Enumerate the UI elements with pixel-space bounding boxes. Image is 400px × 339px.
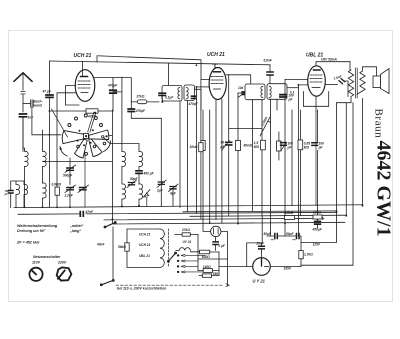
resistor 0.6M	[55, 130, 59, 207]
trimmer 500pF	[65, 158, 76, 185]
svg-text:UY 21: UY 21	[183, 240, 192, 244]
svg-text:1 μF: 1 μF	[218, 244, 226, 248]
coil L5	[122, 151, 126, 183]
wire 125V	[301, 103, 337, 243]
resistor 0.85M	[298, 140, 303, 150]
dashed shorting link	[116, 284, 229, 287]
trimmer 10n	[238, 90, 249, 98]
svg-text:wand: wand	[34, 104, 42, 108]
coil L1	[23, 117, 28, 207]
resistor 10k	[199, 143, 203, 152]
coil L8 lower	[139, 184, 143, 206]
svg-text:MΩ: MΩ	[254, 145, 260, 149]
svg-text:UCH 21: UCH 21	[139, 243, 151, 247]
svg-text:400 μF: 400 μF	[143, 171, 155, 175]
svg-text:„lang“: „lang“	[69, 229, 81, 233]
svg-text:U6V 53mA: U6V 53mA	[321, 58, 337, 62]
resistor 6.8k	[285, 216, 295, 220]
rectifier tube UY21	[219, 252, 301, 275]
resistor 140	[198, 269, 219, 273]
svg-text:125V: 125V	[313, 242, 321, 246]
antenna	[14, 73, 32, 112]
wire heater row	[198, 258, 227, 260]
svg-text:Netzumschalter: Netzumschalter	[33, 255, 61, 259]
IF transformer 1	[159, 85, 201, 211]
svg-text:2μF: 2μF	[156, 189, 164, 193]
svg-text:4μF: 4μF	[169, 192, 177, 196]
potentiometer 0.5M	[229, 117, 270, 136]
svg-text:50μF: 50μF	[264, 232, 272, 236]
capacitor 47pF	[46, 61, 53, 207]
trimmer 2.2nF	[65, 185, 76, 207]
svg-text:165V: 165V	[284, 266, 292, 270]
resistor 27k anode	[131, 100, 159, 104]
svg-text:UBL 21: UBL 21	[139, 254, 150, 258]
wire cathode tube1	[57, 77, 122, 151]
long bus wires	[14, 205, 363, 224]
wire grid loop tube1	[65, 86, 79, 105]
capacitor 68pF	[226, 142, 232, 145]
loudspeaker	[373, 69, 389, 94]
IF transformer 2	[245, 84, 298, 236]
coil L4 lower	[24, 181, 28, 208]
coil UY21 heater	[176, 248, 190, 251]
svg-text:0,1μF: 0,1μF	[165, 96, 174, 100]
switch arrow R2	[144, 190, 151, 206]
coil L3 lower	[43, 183, 47, 207]
coil L4b	[16, 181, 24, 208]
svg-text:UCH 21: UCH 21	[139, 233, 151, 237]
svg-text:U Y 21: U Y 21	[253, 279, 266, 284]
capacitor Buchwand	[23, 100, 61, 135]
resistor 27k heater	[175, 233, 198, 236]
svg-text:470pF: 470pF	[188, 102, 199, 106]
svg-text:450μF: 450μF	[312, 227, 323, 231]
capacitor 470pF no.2	[128, 102, 161, 118]
capacitor 47nF bus	[80, 212, 83, 217]
trimmer no.3	[78, 185, 89, 193]
svg-text:UCH 21: UCH 21	[207, 52, 225, 58]
svg-text:Drehung um 90°: Drehung um 90°	[17, 229, 46, 233]
coil L6	[139, 144, 143, 170]
mid band vertical wires	[161, 87, 317, 236]
capacitor 150pF	[9, 181, 17, 208]
svg-text:470pF: 470pF	[135, 109, 146, 113]
svg-text:50pF: 50pF	[130, 177, 138, 181]
resistor 500	[261, 140, 266, 150]
wire mid left	[43, 161, 113, 163]
trimmer 50pF mid	[127, 180, 137, 188]
resistor 620	[190, 250, 219, 254]
capacitor 50uF no.1	[267, 234, 296, 240]
svg-text:47 pF: 47 pF	[42, 90, 52, 94]
tube UCH21 no.2	[196, 64, 250, 219]
output transformer	[337, 62, 377, 266]
svg-text:0,6MΩ: 0,6MΩ	[52, 183, 62, 187]
svg-text:500pF: 500pF	[63, 174, 73, 178]
voltage selector switch	[167, 252, 205, 273]
svg-text:470pF: 470pF	[107, 84, 118, 88]
svg-text:2,2nF: 2,2nF	[64, 194, 74, 198]
capacitor 50uF no.2	[293, 234, 302, 243]
resistor 100	[313, 215, 322, 219]
svg-text:56kΩ: 56kΩ	[118, 245, 126, 249]
tuning capacitor wheel	[52, 109, 111, 158]
svg-text:MΩ: MΩ	[304, 145, 310, 149]
svg-text:bei 110 u. 200V kurzschließen: bei 110 u. 200V kurzschließen	[117, 287, 166, 291]
svg-text:220V: 220V	[57, 261, 67, 265]
resistor 68k	[236, 141, 241, 151]
knob 220V	[56, 267, 72, 282]
capacitor 100pF no.2	[312, 143, 318, 146]
svg-text:Wellenschalterstellung: Wellenschalterstellung	[17, 224, 58, 228]
svg-text:620Ω: 620Ω	[202, 255, 210, 259]
knob 110V	[29, 268, 42, 281]
svg-text:0,1: 0,1	[290, 91, 295, 95]
heater box	[127, 229, 169, 268]
coil L2	[43, 130, 47, 183]
svg-text:UCH 21: UCH 21	[74, 53, 92, 59]
svg-text:140Ω: 140Ω	[203, 265, 211, 269]
svg-text:47kΩ: 47kΩ	[87, 115, 96, 119]
resistor 550	[199, 274, 219, 277]
svg-text:6,8kΩ: 6,8kΩ	[285, 211, 294, 215]
svg-text:ZF = 452 kHz: ZF = 452 kHz	[16, 241, 40, 245]
svg-text:„mittel“: „mittel“	[69, 224, 84, 228]
capacitor 1uF	[213, 237, 218, 251]
capacitor 1nF	[20, 114, 27, 151]
svg-text:pF: pF	[4, 192, 9, 196]
svg-text:Braun: Braun	[372, 109, 384, 139]
capacitor 400uF	[136, 171, 142, 184]
resistor 1.7k	[299, 243, 303, 267]
svg-text:1,7kΩ: 1,7kΩ	[304, 253, 313, 257]
resistor 47k	[49, 109, 113, 113]
svg-text:27kΩ: 27kΩ	[181, 228, 190, 232]
svg-text:10k: 10k	[238, 86, 244, 90]
wire anode tube1	[93, 78, 131, 102]
capacitor 68nF	[267, 65, 273, 84]
tube UBL21	[285, 62, 350, 236]
svg-text:4642 GW/1: 4642 GW/1	[372, 141, 394, 237]
trimmer 4uF	[169, 184, 179, 206]
wires heater right	[198, 234, 219, 275]
svg-text:20nF: 20nF	[256, 241, 265, 245]
svg-text:550: 550	[213, 272, 219, 276]
svg-text:68mΩ: 68mΩ	[244, 143, 253, 147]
coil L7 lower	[122, 184, 126, 206]
svg-text:27kΩ: 27kΩ	[136, 95, 145, 99]
svg-text:100Ω: 100Ω	[313, 211, 321, 215]
wire top bus 1	[49, 61, 270, 86]
svg-text:40nF: 40nF	[96, 243, 105, 247]
magic eye tube	[203, 224, 227, 286]
trimmer 2uF	[157, 180, 166, 188]
svg-text:10kΩ: 10kΩ	[190, 145, 198, 149]
svg-text:110V: 110V	[32, 261, 41, 265]
wire top bus 2	[97, 56, 201, 80]
tube UCH21 no.1	[75, 62, 95, 102]
resistor 56k	[125, 243, 129, 251]
capacitor 450uF	[315, 217, 325, 228]
svg-text:6,8nF: 6,8nF	[264, 59, 273, 63]
svg-text:50μF: 50μF	[286, 232, 294, 236]
capacitor 7.5nF	[339, 79, 348, 97]
svg-text:R2: R2	[144, 195, 148, 199]
wire bottom right	[301, 264, 353, 266]
capacitor 470pF	[110, 78, 116, 111]
switch S1 wellenschalter	[100, 222, 116, 286]
wires wheel area	[85, 110, 139, 224]
page edge	[9, 31, 393, 302]
svg-text:47nF: 47nF	[85, 210, 94, 214]
capacitor 20nF	[247, 216, 265, 267]
